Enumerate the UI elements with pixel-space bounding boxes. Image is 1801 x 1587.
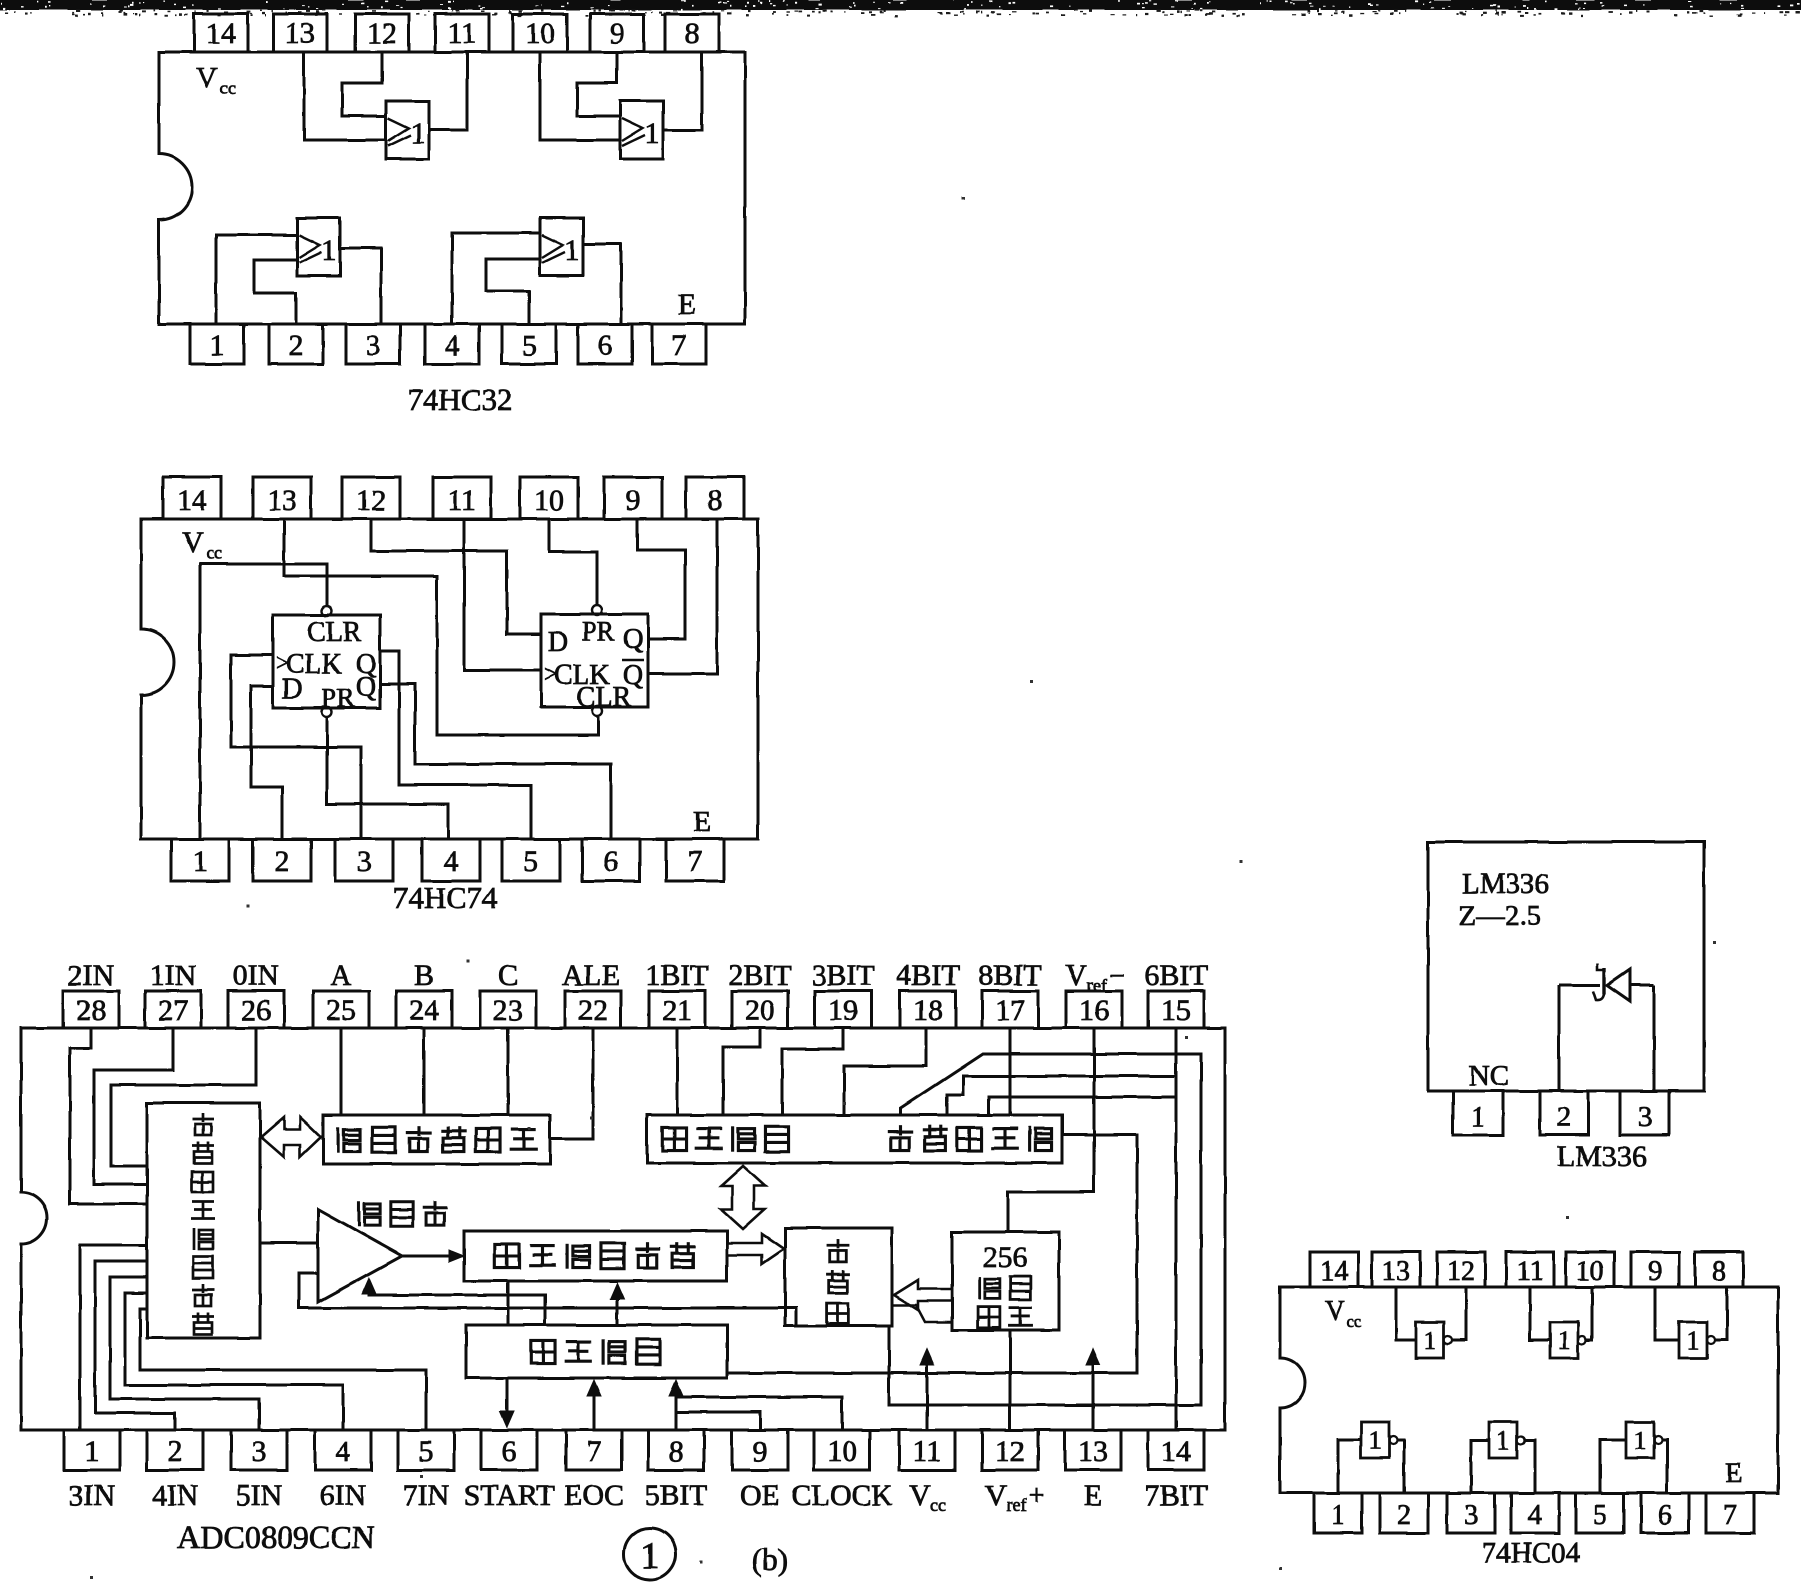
svg-text:1: 1 bbox=[1331, 1500, 1345, 1531]
wire input inverter B1 bbox=[1338, 1440, 1361, 1493]
pin 12 box (ADC0809) bbox=[982, 1430, 1038, 1470]
svg-text:4: 4 bbox=[445, 329, 460, 362]
wire pin12 to FF2 D bbox=[371, 519, 541, 634]
wire pin4 to G4 input bbox=[452, 233, 540, 324]
svg-text:16: 16 bbox=[1079, 994, 1109, 1027]
pin 4 (74HC74) bbox=[422, 839, 480, 881]
svg-text:E: E bbox=[678, 288, 696, 321]
pin 3 (74HC74) bbox=[335, 839, 393, 881]
wire pin2 to G3 input bbox=[254, 260, 297, 324]
svg-text:START: START bbox=[464, 1479, 555, 1512]
arrow E pin13 power bbox=[1086, 1349, 1100, 1430]
svg-text:1: 1 bbox=[1424, 1326, 1437, 1355]
svg-text:5IN: 5IN bbox=[236, 1479, 283, 1512]
svg-text:ALE: ALE bbox=[562, 959, 620, 992]
pin 10 box (ADC0809) bbox=[814, 1430, 870, 1470]
pin 20 box (ADC0809) bbox=[732, 991, 788, 1028]
pin 6 (74HC74) bbox=[582, 839, 640, 881]
svg-text:11: 11 bbox=[448, 484, 477, 517]
pin 14 (74HC74) bbox=[163, 477, 221, 519]
pin 1 (74HC74) bbox=[171, 839, 229, 881]
pin 3 (74HC04) bbox=[1447, 1493, 1495, 1533]
pin 18 box (ADC0809) bbox=[900, 991, 956, 1028]
pin 10 (74HC74) bbox=[520, 477, 578, 519]
wire FF1 Q to pin5 bbox=[380, 651, 531, 839]
svg-text:19: 19 bbox=[828, 994, 858, 1027]
svg-text:2IN: 2IN bbox=[68, 959, 115, 992]
svg-text:10: 10 bbox=[1576, 1256, 1604, 1287]
pin 13 net label E bbox=[1084, 1479, 1102, 1512]
pin 11 (74HC32) bbox=[435, 14, 489, 52]
E label (74HC74) bbox=[693, 805, 711, 838]
pin 5 (74HC32) bbox=[502, 324, 556, 364]
pin 7 (74HC32) bbox=[652, 324, 706, 364]
pin 16 net label VREF- bbox=[1065, 959, 1125, 995]
wire input inverter B3 bbox=[1600, 1440, 1626, 1493]
svg-text:ADC0809CCN: ADC0809CCN bbox=[177, 1519, 374, 1555]
wire pin3 to FF1 CLK bbox=[231, 655, 361, 839]
svg-text:ref: ref bbox=[1087, 975, 1107, 995]
pin 5 box (ADC0809) bbox=[398, 1430, 454, 1470]
pin 1 (LM336) bbox=[1453, 1091, 1503, 1135]
pin 3 net label 5IN bbox=[236, 1479, 283, 1512]
wire pin28 (2IN) to mux bbox=[70, 1028, 147, 1204]
svg-text:2: 2 bbox=[1397, 1500, 1411, 1531]
svg-text:1: 1 bbox=[565, 234, 580, 267]
svg-text:6: 6 bbox=[604, 845, 619, 878]
inverter B3 (74HC04 bottom row) bbox=[1626, 1422, 1662, 1458]
svg-text:4: 4 bbox=[1528, 1500, 1542, 1531]
wire pin2 (4IN) to mux bbox=[95, 1261, 175, 1430]
svg-text:6: 6 bbox=[502, 1435, 517, 1468]
pin 14 (74HC04) bbox=[1310, 1252, 1358, 1287]
pin 7 net label EOC bbox=[564, 1479, 624, 1512]
double-head hollow arrow SAR <-> tri-state output bbox=[721, 1166, 765, 1229]
svg-text:28: 28 bbox=[76, 994, 106, 1027]
inverter T2 (74HC04 top row) bbox=[1550, 1322, 1586, 1358]
wire 6BIT branch to latch buffer bbox=[947, 1076, 1176, 1115]
svg-text:cc: cc bbox=[206, 543, 222, 563]
svg-text:10: 10 bbox=[525, 17, 555, 50]
pin 4 (74HC32) bbox=[425, 324, 479, 364]
svg-text:ref: ref bbox=[1007, 1495, 1027, 1515]
svg-text:9: 9 bbox=[753, 1435, 768, 1468]
svg-text:1: 1 bbox=[85, 1435, 100, 1468]
svg-text:8BIT: 8BIT bbox=[978, 959, 1041, 992]
pin 8 (74HC74) bbox=[686, 477, 744, 519]
IC U3 ADC0809CCN body bbox=[21, 1028, 1225, 1430]
wire G4 output to pin6 bbox=[583, 244, 621, 324]
pin 3 (74HC32) bbox=[346, 324, 400, 364]
svg-text:10: 10 bbox=[534, 484, 564, 517]
arrow Vcc pin11 power bbox=[920, 1349, 934, 1430]
svg-text:9: 9 bbox=[1648, 1256, 1662, 1287]
pin 18 net label 4BIT bbox=[896, 959, 959, 992]
svg-text:12: 12 bbox=[356, 484, 386, 517]
wire pin15/pin14 bus line bbox=[1175, 1028, 1178, 1430]
svg-text:7: 7 bbox=[672, 329, 687, 362]
svg-text:V: V bbox=[182, 526, 204, 559]
pin 17 net label 8BIT bbox=[978, 959, 1041, 992]
FF2 PR bubble bbox=[592, 605, 602, 615]
block: 256 resistor network bbox=[952, 1232, 1059, 1330]
arrow control logic up into SAR bbox=[610, 1283, 624, 1325]
IC U4 LM336 body bbox=[1428, 842, 1704, 1091]
pin 21 net label 1BIT bbox=[645, 959, 708, 992]
pin 2 box (ADC0809) bbox=[147, 1430, 203, 1470]
pin 12 (74HC32) bbox=[355, 14, 409, 52]
svg-text:13: 13 bbox=[1078, 1435, 1108, 1468]
pin 13 (74HC32) bbox=[273, 14, 327, 52]
svg-text:CLOCK: CLOCK bbox=[791, 1479, 893, 1512]
svg-text:3BIT: 3BIT bbox=[811, 959, 874, 992]
pin 25 box (ADC0809) bbox=[313, 991, 369, 1028]
IC U5 74HC04 body bbox=[1280, 1287, 1778, 1493]
pin 7 (74HC04) bbox=[1706, 1493, 1754, 1533]
pin 24 box (ADC0809) bbox=[396, 991, 452, 1028]
pin 13 (74HC04) bbox=[1372, 1252, 1420, 1287]
inverter T1 (74HC04 top row) bbox=[1416, 1322, 1452, 1358]
svg-text:25: 25 bbox=[326, 994, 356, 1027]
wire output inverter T1 bbox=[1452, 1287, 1466, 1340]
svg-text:256: 256 bbox=[983, 1241, 1028, 1274]
svg-text:1: 1 bbox=[411, 117, 426, 150]
pin 9 (74HC74) bbox=[604, 477, 662, 519]
wire SAR to control logic bbox=[507, 1281, 510, 1325]
inverter T3 (74HC04 top row) bbox=[1679, 1322, 1715, 1358]
label LM336 Z-2.5 inside bbox=[1458, 868, 1549, 932]
wire pin27 (1IN) to mux bbox=[94, 1028, 173, 1184]
svg-text:NC: NC bbox=[1469, 1060, 1509, 1092]
svg-text:1BIT: 1BIT bbox=[645, 959, 708, 992]
svg-text:4BIT: 4BIT bbox=[896, 959, 959, 992]
wire control logic to comparator lower input bbox=[362, 1278, 545, 1325]
pin 6 box (ADC0809) bbox=[481, 1430, 537, 1470]
block: successive approximation register bbox=[464, 1231, 727, 1281]
svg-text:3: 3 bbox=[366, 329, 381, 362]
svg-text:8: 8 bbox=[1712, 1256, 1726, 1287]
svg-text:1: 1 bbox=[1687, 1326, 1700, 1355]
svg-text:27: 27 bbox=[158, 994, 188, 1027]
pin 24 net label B bbox=[414, 959, 434, 992]
svg-text:(b): (b) bbox=[752, 1542, 788, 1577]
svg-text:LM336: LM336 bbox=[1557, 1140, 1647, 1173]
label ADC0809CCN bbox=[177, 1519, 374, 1555]
pin 12 (74HC04) bbox=[1437, 1252, 1485, 1287]
svg-text:6: 6 bbox=[598, 329, 613, 362]
svg-text:5: 5 bbox=[419, 1435, 434, 1468]
svg-text:11: 11 bbox=[913, 1435, 942, 1468]
pin 27 box (ADC0809) bbox=[145, 991, 201, 1028]
svg-text:1: 1 bbox=[322, 234, 337, 267]
svg-text:9: 9 bbox=[626, 484, 641, 517]
pin 8 net label 5BIT bbox=[644, 1479, 707, 1512]
svg-text:1: 1 bbox=[1497, 1426, 1510, 1455]
svg-text:4IN: 4IN bbox=[152, 1479, 199, 1512]
svg-text:13: 13 bbox=[285, 17, 315, 50]
or-gate G2 (pins 9,10 -> 8) bbox=[620, 101, 663, 159]
svg-text:Z—2.5: Z—2.5 bbox=[1458, 900, 1541, 932]
label 74HC74 bbox=[392, 880, 498, 915]
pin 14 (74HC32) bbox=[194, 14, 248, 52]
pin 22 net label ALE bbox=[562, 959, 620, 992]
svg-text:74HC32: 74HC32 bbox=[407, 382, 512, 417]
pin 17 box (ADC0809) bbox=[982, 991, 1038, 1028]
inverter B1 (74HC04 bottom row) bbox=[1361, 1422, 1397, 1458]
svg-text:15: 15 bbox=[1161, 994, 1191, 1027]
svg-text:LM336: LM336 bbox=[1462, 868, 1549, 900]
svg-text:A: A bbox=[330, 959, 352, 992]
svg-text:2: 2 bbox=[289, 329, 304, 362]
svg-text:+: + bbox=[1029, 1481, 1045, 1512]
comparator triangle bbox=[318, 1209, 402, 1302]
svg-text:11: 11 bbox=[448, 17, 477, 50]
pin 9 (74HC32) bbox=[590, 14, 644, 52]
pin 10 (74HC04) bbox=[1566, 1252, 1614, 1287]
wire FF1 PR to pin4 bbox=[327, 718, 448, 839]
svg-text:4: 4 bbox=[444, 845, 459, 878]
pin 2 (74HC32) bbox=[269, 324, 323, 364]
wire pin5 (7IN) to mux bbox=[140, 1309, 426, 1430]
svg-text:17: 17 bbox=[995, 994, 1025, 1027]
svg-text:14: 14 bbox=[177, 484, 207, 517]
IC U2 74HC74 body bbox=[141, 519, 758, 839]
svg-text:CLR: CLR bbox=[307, 617, 362, 648]
svg-text:2: 2 bbox=[275, 845, 290, 878]
wire pin25 (A) to address latch bbox=[340, 1028, 343, 1115]
svg-text:V: V bbox=[909, 1479, 931, 1512]
NC label bbox=[1469, 1060, 1509, 1092]
pin 25 net label A bbox=[330, 959, 352, 992]
svg-text:1: 1 bbox=[645, 117, 660, 150]
svg-text:1IN: 1IN bbox=[150, 959, 197, 992]
arrow EOC pin7 up into control logic bbox=[587, 1380, 601, 1430]
pin 1 box (ADC0809) bbox=[64, 1430, 120, 1470]
pin 9 (74HC04) bbox=[1631, 1252, 1679, 1287]
svg-text:1: 1 bbox=[210, 329, 225, 362]
svg-text:5: 5 bbox=[524, 845, 539, 878]
wire G2 output to pin8 bbox=[664, 52, 702, 130]
svg-text:7BIT: 7BIT bbox=[1144, 1479, 1207, 1512]
pin 11 (74HC74) bbox=[433, 477, 491, 519]
pin 9 net label OE bbox=[740, 1479, 780, 1512]
svg-text:8: 8 bbox=[708, 484, 723, 517]
svg-text:V: V bbox=[1325, 1296, 1345, 1327]
arrow 5BIT/OE/CLOCK junction up into control logic bbox=[669, 1380, 683, 1396]
or-gate G3 (pins 1,2 -> 3) bbox=[297, 218, 340, 276]
wire comparator feedback from switch tree bbox=[299, 1273, 796, 1326]
svg-text:1: 1 bbox=[193, 845, 208, 878]
svg-text:26: 26 bbox=[241, 994, 271, 1027]
svg-text:7IN: 7IN bbox=[403, 1479, 450, 1512]
svg-text:6BIT: 6BIT bbox=[1144, 959, 1207, 992]
svg-text:6IN: 6IN bbox=[320, 1479, 367, 1512]
wire pin10 to G2 input bbox=[540, 52, 620, 140]
figure label (b) bbox=[752, 1542, 788, 1577]
svg-text:Q: Q bbox=[356, 672, 376, 703]
svg-text:D: D bbox=[282, 674, 302, 705]
pin 12 (74HC74) bbox=[342, 477, 400, 519]
figure number circled 1 bbox=[624, 1528, 676, 1580]
svg-text:11: 11 bbox=[1517, 1256, 1544, 1287]
pin 3 (LM336) bbox=[1620, 1091, 1669, 1135]
label 74HC32 bbox=[407, 382, 512, 417]
or-gate G4 (pins 4,5 -> 6) bbox=[540, 218, 583, 276]
Vcc label (74HC74) bbox=[182, 526, 222, 563]
arrow comparator output into SAR bbox=[402, 1250, 464, 1262]
pin 28 net label 2IN bbox=[68, 959, 115, 992]
svg-text:10: 10 bbox=[827, 1435, 857, 1468]
wire pin12 to G1 input bbox=[342, 52, 386, 116]
pin 15 box (ADC0809) bbox=[1148, 991, 1204, 1028]
pin 23 box (ADC0809) bbox=[480, 991, 536, 1028]
svg-text:1: 1 bbox=[1634, 1426, 1647, 1455]
wire G1 output to pin11 bbox=[429, 52, 467, 130]
pin 21 box (ADC0809) bbox=[649, 991, 705, 1028]
svg-text:cc: cc bbox=[930, 1495, 946, 1515]
svg-text:12: 12 bbox=[1447, 1256, 1475, 1287]
pin 26 net label 0IN bbox=[233, 959, 280, 992]
wire 7BIT branch to latch buffer bbox=[989, 1097, 1176, 1115]
svg-text:V: V bbox=[985, 1479, 1007, 1512]
zigzag link switch tree to 256 network bbox=[892, 1305, 952, 1322]
svg-text:5: 5 bbox=[1593, 1500, 1607, 1531]
svg-text:2BIT: 2BIT bbox=[728, 959, 791, 992]
svg-text:C: C bbox=[498, 959, 518, 992]
svg-text:20: 20 bbox=[745, 994, 775, 1027]
pin 28 box (ADC0809) bbox=[63, 991, 119, 1028]
hollow arrow SAR -> switch tree bbox=[727, 1234, 784, 1264]
pin 1 (74HC04) bbox=[1314, 1493, 1362, 1533]
svg-text:3: 3 bbox=[357, 845, 372, 878]
svg-text:7: 7 bbox=[587, 1435, 602, 1468]
pin 11 (74HC04) bbox=[1506, 1252, 1554, 1287]
pin 8 (74HC32) bbox=[665, 14, 719, 52]
svg-text:3: 3 bbox=[1464, 1500, 1478, 1531]
Vcc label (74HC32) bbox=[196, 61, 236, 98]
wire pin8 (5BIT) to control logic bbox=[675, 1391, 678, 1430]
svg-text:13: 13 bbox=[267, 484, 297, 517]
pin 5 net label 7IN bbox=[403, 1479, 450, 1512]
pin 5 (74HC74) bbox=[502, 839, 560, 881]
pin 7 (74HC74) bbox=[666, 839, 724, 881]
svg-text:3: 3 bbox=[252, 1435, 267, 1468]
wire pin10 (CLOCK) to control logic bbox=[676, 1397, 842, 1430]
pin 8 box (ADC0809) bbox=[648, 1430, 704, 1470]
pin 1 net label 3IN bbox=[69, 1479, 116, 1512]
svg-text:7: 7 bbox=[688, 845, 703, 878]
svg-text:8: 8 bbox=[669, 1435, 684, 1468]
pin 10 net label CLOCK bbox=[791, 1479, 893, 1512]
svg-text:E: E bbox=[693, 805, 711, 838]
svg-text:1: 1 bbox=[1471, 1101, 1486, 1133]
wire pin22 (ALE) to address latch bbox=[550, 1028, 593, 1139]
scan noise band bbox=[0, 0, 1801, 17]
svg-text:23: 23 bbox=[493, 994, 523, 1027]
pin 6 net label START bbox=[464, 1479, 555, 1512]
svg-text:2: 2 bbox=[168, 1435, 183, 1468]
Vcc label (74HC04) bbox=[1325, 1296, 1362, 1331]
wire pin2 to FF1 D bbox=[251, 686, 282, 839]
svg-text:2: 2 bbox=[1557, 1101, 1572, 1133]
block: switch tree bbox=[785, 1228, 892, 1326]
wire input inverter B2 bbox=[1471, 1440, 1489, 1493]
wire input inverter T2 bbox=[1530, 1287, 1550, 1340]
arrow control logic down to START pin6 bbox=[500, 1378, 514, 1427]
pin 27 net label 1IN bbox=[150, 959, 197, 992]
wire input inverter T1 bbox=[1396, 1287, 1416, 1340]
label 74HC04 bbox=[1482, 1537, 1581, 1569]
wire latch buffer to control logic bbox=[727, 1135, 1137, 1373]
hollow arrow 256-network -> switch tree bbox=[894, 1280, 952, 1310]
svg-text:EOC: EOC bbox=[564, 1479, 624, 1512]
stray scan specks bbox=[90, 197, 1716, 1579]
wire output inverter B2 bbox=[1525, 1440, 1535, 1493]
svg-text:1: 1 bbox=[1558, 1326, 1571, 1355]
flip-flop FF2 box bbox=[541, 614, 648, 713]
pin 3 box (ADC0809) bbox=[231, 1430, 287, 1470]
pin 11 net label VCC bbox=[909, 1479, 946, 1515]
wire output inverter B1 bbox=[1397, 1440, 1404, 1493]
pin 2 (74HC74) bbox=[253, 839, 311, 881]
svg-text:B: B bbox=[414, 959, 434, 992]
flip-flop FF1 box bbox=[273, 615, 380, 713]
svg-text:13: 13 bbox=[1382, 1256, 1410, 1287]
pin 4 box (ADC0809) bbox=[315, 1430, 371, 1470]
pin 8 (74HC04) bbox=[1695, 1252, 1743, 1287]
wire pin13 to G1 input bbox=[304, 52, 386, 140]
wire output inverter T3 bbox=[1715, 1287, 1727, 1340]
wire input inverter T3 bbox=[1655, 1287, 1679, 1340]
pin 26 box (ADC0809) bbox=[228, 991, 284, 1028]
FF1 CLR bubble bbox=[322, 606, 332, 616]
pin 4 net label 6IN bbox=[320, 1479, 367, 1512]
svg-text:21: 21 bbox=[662, 994, 692, 1027]
svg-text:1: 1 bbox=[641, 1535, 660, 1577]
wire pin9 to G2 input bbox=[577, 52, 620, 116]
svg-text:cc: cc bbox=[1346, 1312, 1362, 1331]
pin 12 net label VREF+ bbox=[985, 1479, 1045, 1515]
svg-text:12: 12 bbox=[367, 17, 397, 50]
svg-text:22: 22 bbox=[578, 994, 608, 1027]
svg-text:PR: PR bbox=[321, 683, 354, 713]
pin 14 box (ADC0809) bbox=[1148, 1430, 1204, 1470]
pin 20 net label 2BIT bbox=[728, 959, 791, 992]
svg-text:V: V bbox=[1065, 959, 1087, 992]
E label pin7 net (74HC32) bbox=[678, 288, 696, 321]
wire output inverter B3 bbox=[1662, 1440, 1667, 1493]
svg-text:18: 18 bbox=[913, 994, 943, 1027]
wire pin4 (6IN) to mux bbox=[125, 1293, 343, 1430]
svg-text:14: 14 bbox=[1161, 1435, 1191, 1468]
svg-text:6: 6 bbox=[1658, 1500, 1672, 1531]
svg-text:74HC04: 74HC04 bbox=[1482, 1537, 1581, 1569]
wire pin1 (3IN) to mux bbox=[80, 1245, 147, 1430]
pin 13 box (ADC0809) bbox=[1065, 1430, 1121, 1470]
pin 23 net label C bbox=[498, 959, 518, 992]
svg-text:7: 7 bbox=[1723, 1500, 1737, 1531]
zener diode D1 bbox=[1559, 964, 1654, 1001]
block: control logic bbox=[466, 1325, 727, 1378]
pin 22 box (ADC0809) bbox=[565, 991, 621, 1028]
svg-text:14: 14 bbox=[206, 17, 236, 50]
wire pin18 (4BIT) to tri-state bbox=[844, 1028, 926, 1115]
wire FF2 Q to pin9 bbox=[637, 519, 685, 639]
svg-text:PR: PR bbox=[581, 616, 614, 646]
wire mux to comparator input bbox=[260, 1242, 318, 1245]
svg-text:0IN: 0IN bbox=[233, 959, 280, 992]
wire latch buffer to switch tree loop bbox=[889, 1054, 1201, 1405]
